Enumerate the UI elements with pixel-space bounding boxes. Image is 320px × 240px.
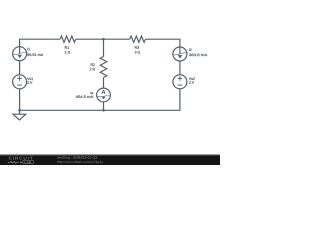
wire: [76, 38, 104, 40]
CircuitLab logo: [8, 157, 34, 164]
wire: [103, 39, 105, 56]
wire: [104, 38, 130, 40]
wire: [103, 78, 105, 89]
ammeter ia: [76, 88, 111, 102]
node: [102, 109, 105, 112]
resistor R2: [90, 57, 107, 78]
node: [102, 38, 105, 41]
wire: [179, 61, 181, 75]
current source I2: [173, 47, 207, 61]
voltage source Vs2: [173, 75, 195, 89]
wire: [19, 89, 21, 111]
node: [18, 109, 21, 112]
current source I1: [13, 47, 44, 61]
wire: [20, 109, 104, 111]
resistor R3: [130, 36, 146, 53]
ground: [13, 110, 26, 120]
wire: [104, 89, 180, 111]
footer text: [57, 156, 103, 163]
wire: [145, 39, 180, 47]
wire: [103, 102, 105, 110]
wire: [19, 61, 21, 75]
wire: [20, 39, 61, 47]
voltage source Vs1: [13, 75, 33, 89]
resistor R1: [60, 36, 76, 53]
